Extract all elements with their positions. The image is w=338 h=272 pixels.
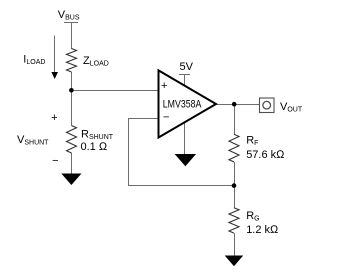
svg-text:0.1 Ω: 0.1 Ω: [81, 141, 108, 153]
svg-text:RF: RF: [246, 135, 258, 148]
svg-text:1.2 kΩ: 1.2 kΩ: [246, 224, 279, 236]
svg-text:ZLOAD: ZLOAD: [83, 55, 109, 68]
svg-text:RSHUNT: RSHUNT: [81, 129, 114, 142]
svg-text:+: +: [161, 80, 167, 92]
svg-text:−: −: [52, 155, 58, 167]
svg-text:−: −: [163, 112, 169, 124]
svg-text:ILOAD: ILOAD: [23, 53, 45, 66]
svg-text:VSHUNT: VSHUNT: [17, 134, 49, 147]
svg-text:+: +: [51, 112, 57, 124]
svg-text:VBUS: VBUS: [58, 9, 80, 22]
svg-text:5V: 5V: [180, 61, 194, 73]
svg-text:RG: RG: [246, 210, 259, 223]
svg-text:LMV358A: LMV358A: [163, 98, 202, 110]
svg-text:57.6 kΩ: 57.6 kΩ: [246, 149, 285, 161]
svg-text:VOUT: VOUT: [280, 101, 303, 114]
